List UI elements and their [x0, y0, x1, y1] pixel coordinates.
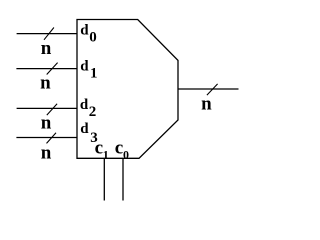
svg-text:1: 1	[90, 66, 98, 82]
wire output	[178, 88, 239, 90]
svg-text:n: n	[40, 73, 51, 94]
bus slash on output wire	[207, 84, 218, 95]
svg-text:2: 2	[89, 104, 97, 120]
svg-text:d: d	[80, 97, 89, 113]
svg-text:c: c	[115, 137, 123, 158]
wire c1 select input	[103, 158, 105, 200]
svg-text:n: n	[41, 143, 52, 164]
svg-text:d: d	[80, 58, 89, 74]
svg-text:n: n	[41, 113, 52, 134]
bus slash on d1 wire	[47, 63, 58, 75]
wire d1 input	[16, 68, 77, 70]
wire d3 input	[16, 137, 77, 139]
svg-text:n: n	[201, 94, 212, 115]
wire d2 input	[17, 107, 77, 109]
mux U1 (4-to-1 multiplexer body outline)	[77, 20, 178, 159]
svg-text:d: d	[80, 121, 89, 137]
svg-text:0: 0	[89, 30, 97, 46]
svg-text:n: n	[41, 38, 52, 59]
wire d0 input	[17, 33, 77, 35]
bus slash on d3 wire	[47, 133, 57, 144]
svg-text:c: c	[95, 137, 103, 158]
bus slash on d2 wire	[47, 104, 57, 115]
svg-text:d: d	[80, 22, 89, 38]
svg-text:0: 0	[123, 147, 129, 161]
bus slash on d0 wire	[44, 28, 54, 40]
wire c0 select input	[122, 158, 124, 200]
